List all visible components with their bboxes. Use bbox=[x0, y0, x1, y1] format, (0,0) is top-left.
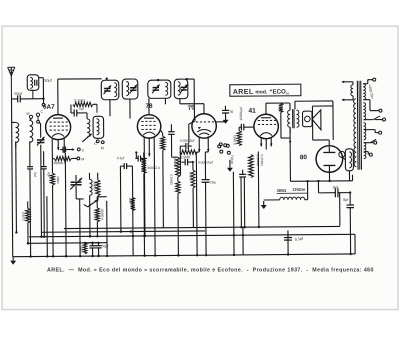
capacitor 10uf bbox=[201, 175, 216, 255]
svg-text:380Ω: 380Ω bbox=[277, 188, 287, 193]
antenna bbox=[8, 67, 15, 99]
svg-text:135Ωm: 135Ωm bbox=[292, 187, 306, 192]
wire can2 stub bbox=[129, 99, 131, 118]
oscillator arrow bbox=[82, 134, 92, 142]
junction bbox=[349, 253, 351, 255]
junction bbox=[106, 255, 108, 257]
tube 41 bbox=[254, 114, 279, 139]
label 75 bbox=[187, 104, 196, 112]
wire OT return bbox=[289, 127, 292, 181]
svg-text:50μf: 50μf bbox=[102, 244, 109, 248]
wire 41 plate bbox=[266, 103, 290, 114]
resistor 78 cathode bbox=[160, 130, 165, 228]
wire mid vertical b bbox=[242, 227, 244, 255]
wire AVC drop bbox=[180, 146, 182, 175]
ground 75 bypass bbox=[223, 116, 229, 124]
potentiometer arrow bbox=[84, 200, 98, 207]
switch contact M2 bbox=[71, 157, 84, 162]
svg-text:0.1MΩ: 0.1MΩ bbox=[173, 158, 177, 168]
svg-text:30: 30 bbox=[229, 110, 233, 114]
svg-text:0.5MΩ: 0.5MΩ bbox=[233, 135, 237, 145]
svg-text:10000μμf: 10000μμf bbox=[239, 107, 243, 121]
junction bbox=[120, 230, 122, 232]
wire 80 plate top bbox=[312, 106, 333, 146]
svg-text:0.25MΩ: 0.25MΩ bbox=[260, 154, 264, 166]
choke 380 bbox=[264, 181, 308, 200]
junction bbox=[287, 253, 289, 255]
svg-text:“ECO„: “ECO„ bbox=[269, 88, 289, 95]
tube 6A7 pins bbox=[52, 139, 64, 154]
capacitor 1uf bbox=[60, 147, 65, 153]
wire 78 grid cap bbox=[148, 98, 150, 114]
svg-text:10μ: 10μ bbox=[210, 180, 216, 184]
junction bbox=[91, 255, 93, 257]
capacitor 78 bypass bbox=[168, 124, 175, 157]
junction bbox=[177, 254, 179, 256]
svg-text:0.1μf: 0.1μf bbox=[117, 156, 125, 160]
resistor osc bbox=[92, 173, 100, 201]
svg-text:6μf: 6μf bbox=[47, 172, 51, 177]
wire 80 filament down bbox=[328, 170, 330, 181]
resistor 4000 bbox=[141, 152, 161, 255]
wire elec top bbox=[85, 242, 98, 244]
terminal C2 bbox=[94, 140, 99, 146]
svg-text:8μf: 8μf bbox=[343, 198, 348, 202]
svg-text:50pf: 50pf bbox=[14, 92, 22, 96]
capacitor 0.1uf b bbox=[135, 151, 144, 161]
wire 78 plate drop bbox=[144, 153, 155, 255]
tube 78 pins bbox=[144, 137, 154, 157]
mains plug arrows bbox=[341, 80, 353, 101]
junction bbox=[243, 226, 245, 228]
wire v9 bbox=[196, 152, 209, 255]
svg-text:80: 80 bbox=[300, 154, 308, 161]
svg-text:0.00025μf: 0.00025μf bbox=[180, 139, 195, 143]
junction bbox=[42, 98, 44, 100]
junction bbox=[79, 255, 81, 257]
junction bbox=[154, 254, 156, 256]
speaker bbox=[302, 110, 320, 130]
junction bbox=[233, 254, 235, 256]
wire v5 bbox=[76, 199, 84, 256]
wave-trap can bbox=[27, 75, 39, 99]
resistor 0.5k bbox=[21, 201, 30, 244]
svg-text:C: C bbox=[40, 110, 43, 114]
junction bbox=[89, 235, 91, 237]
wire v11 bbox=[287, 230, 289, 254]
junction bbox=[97, 255, 99, 257]
wire speaker top bbox=[295, 101, 333, 140]
primary tap coil bbox=[351, 85, 353, 96]
label choke bbox=[277, 187, 308, 194]
svg-text:0.5kΩ: 0.5kΩ bbox=[21, 211, 25, 220]
resistor 30000A bbox=[52, 153, 73, 165]
svg-text:10000: 10000 bbox=[93, 181, 97, 190]
terminal pickup 4 bbox=[227, 151, 230, 154]
secondary tap 2 bbox=[363, 100, 382, 113]
terminal M2 bbox=[101, 141, 104, 150]
title box bbox=[230, 84, 301, 96]
label 6A7 bbox=[43, 104, 55, 111]
svg-text:30000 A: 30000 A bbox=[53, 161, 66, 165]
tube 75 bbox=[192, 114, 217, 139]
svg-text:M: M bbox=[81, 157, 84, 161]
tube 75 pins bbox=[198, 136, 210, 152]
capacitor 0.00025 b bbox=[181, 159, 212, 166]
label 41 bbox=[248, 108, 256, 115]
wire can1 stub bbox=[106, 78, 111, 117]
output transformer bbox=[288, 103, 300, 133]
capacitor 0.1uf out bbox=[284, 235, 305, 242]
junction bbox=[84, 242, 86, 244]
junction bbox=[240, 226, 242, 228]
coil osc tap bbox=[89, 173, 92, 201]
svg-text:AREL: AREL bbox=[233, 89, 254, 96]
capacitor 8uf 1 bbox=[318, 181, 351, 198]
junction bbox=[143, 235, 145, 237]
wire v3 bbox=[47, 159, 54, 257]
IF can 1 bbox=[148, 79, 171, 99]
wire v10 bbox=[204, 152, 206, 175]
bus rail C bbox=[29, 242, 107, 245]
wire mid vertical a bbox=[232, 172, 235, 255]
wire B+ line bbox=[290, 171, 352, 183]
svg-text:400Ω: 400Ω bbox=[56, 176, 60, 184]
coil antenna primary bbox=[12, 122, 19, 142]
wire v1 bbox=[16, 141, 31, 256]
resistor 160 bbox=[80, 243, 87, 254]
ground main bbox=[10, 257, 16, 265]
secondary tap 6 bbox=[364, 152, 373, 157]
svg-text:mod.: mod. bbox=[255, 89, 268, 95]
svg-text:6A7: 6A7 bbox=[43, 104, 55, 111]
caption text bbox=[47, 268, 374, 274]
junction bbox=[143, 254, 145, 256]
junction bbox=[29, 255, 31, 257]
secondary tap 3 bbox=[363, 116, 385, 121]
secondary tap 5 bbox=[364, 139, 377, 144]
capacitor 50&#956;f bbox=[71, 104, 97, 116]
svg-text:0.25MΩ: 0.25MΩ bbox=[169, 174, 173, 185]
resistor 400&#937; bbox=[50, 173, 60, 185]
wire v8b bbox=[257, 152, 260, 227]
wire v2 bbox=[40, 153, 43, 236]
capacitor 50pf bbox=[11, 92, 43, 103]
ground tono bbox=[227, 160, 233, 172]
resistor 0.25M mid bbox=[169, 174, 180, 255]
coil oscillator A bbox=[87, 113, 90, 137]
switch contact C2 bbox=[65, 148, 84, 153]
terminal pickup 3 bbox=[220, 150, 223, 153]
label 50&#956;f bbox=[44, 79, 52, 83]
resistor 50000 bbox=[180, 150, 198, 160]
resistor 0.1M&#937; bbox=[73, 99, 93, 107]
junction bbox=[15, 231, 17, 233]
power transformer secondary bbox=[363, 84, 366, 159]
resistor 41 screen bbox=[279, 103, 290, 138]
resistor 41 grid leak bbox=[233, 127, 242, 146]
wire v7 bbox=[97, 197, 107, 256]
resistor 0.1M mid bbox=[172, 157, 180, 177]
label 78 bbox=[145, 103, 153, 110]
resistor 20000 bbox=[95, 197, 105, 237]
svg-text:0.1MΩ: 0.1MΩ bbox=[74, 99, 85, 103]
trimmer padder bbox=[70, 175, 82, 199]
wire antenna down-lead bbox=[11, 99, 12, 257]
junction bbox=[52, 255, 54, 257]
tube 6A7 bbox=[46, 115, 71, 140]
bus rail A2 bbox=[42, 231, 205, 232]
wire B+ to rail bbox=[339, 193, 341, 226]
terminal tono 1 bbox=[218, 145, 221, 148]
wire IF1 bottom bbox=[164, 98, 166, 104]
tube 80 bbox=[316, 146, 343, 173]
wire v4 bbox=[64, 153, 67, 256]
power transformer core bbox=[357, 81, 361, 170]
svg-text:0.5MΩ: 0.5MΩ bbox=[181, 155, 191, 159]
wire 75 plate bbox=[180, 98, 204, 113]
wire coil bottoms bbox=[16, 141, 30, 148]
svg-text:50000: 50000 bbox=[189, 172, 193, 181]
resistor 1k bbox=[128, 198, 135, 211]
junction bbox=[27, 242, 29, 244]
junction bbox=[40, 236, 42, 238]
junction bbox=[205, 254, 207, 256]
tube 78 bbox=[137, 115, 161, 139]
coil antenna secondary bbox=[30, 118, 33, 142]
capacitor 6uf b bbox=[41, 151, 52, 238]
svg-text:AREL. — Mod. « Eco del mondo: AREL. — Mod. « Eco del mondo » scorramab… bbox=[47, 268, 374, 274]
capacitor 50uF b bbox=[96, 243, 109, 257]
secondary tap 4 bbox=[364, 130, 382, 135]
junction bbox=[130, 230, 132, 232]
wire volume pair bbox=[241, 177, 245, 227]
bus rail ground bbox=[13, 254, 355, 257]
terminal C bbox=[36, 110, 43, 123]
junction bbox=[96, 235, 98, 237]
tube 41 pins bbox=[260, 138, 273, 150]
junction bbox=[242, 234, 244, 236]
capacitor 0.1uf a bbox=[117, 156, 133, 256]
bus rail A bbox=[64, 226, 340, 228]
label TONO bbox=[230, 155, 234, 165]
secondary tap 1 bbox=[363, 78, 376, 84]
capacitor tone 0.1 bbox=[239, 170, 246, 177]
svg-text:M: M bbox=[26, 112, 29, 116]
oscillator can bbox=[93, 116, 104, 138]
wire v6 bbox=[89, 201, 91, 236]
label 400-20 bbox=[367, 84, 374, 99]
terminal M bbox=[26, 112, 32, 119]
junction bbox=[132, 235, 134, 237]
ground choke bbox=[261, 201, 267, 209]
svg-text:41: 41 bbox=[248, 108, 256, 115]
terminal bbox=[42, 99, 45, 106]
capacitor 6uf a bbox=[27, 167, 37, 177]
wire 75 grid bbox=[189, 121, 195, 143]
wire trap to node bbox=[39, 78, 44, 99]
trimmer antenna bbox=[37, 123, 45, 153]
svg-text:5μf: 5μf bbox=[79, 107, 84, 111]
IF can 2 bbox=[174, 78, 188, 99]
svg-text:50μf: 50μf bbox=[44, 79, 52, 83]
capacitor 75 plate bypass bbox=[216, 106, 234, 122]
junction bbox=[46, 255, 48, 257]
junction bbox=[144, 235, 146, 237]
junction bbox=[91, 242, 93, 244]
junction bbox=[97, 242, 99, 244]
svg-text:M: M bbox=[101, 146, 104, 150]
terminal pickup 2 bbox=[226, 144, 229, 147]
wire 6A7 grid cap bbox=[58, 79, 102, 115]
svg-text:C: C bbox=[94, 142, 97, 146]
svg-text:20000 A: 20000 A bbox=[100, 209, 104, 221]
capacitor 0.00025 grid bbox=[180, 139, 195, 150]
svg-text:1kΩ: 1kΩ bbox=[128, 198, 132, 204]
label 80 bbox=[300, 154, 308, 161]
junction bbox=[196, 254, 198, 256]
bus rail B bbox=[29, 234, 355, 256]
svg-text:160Ω: 160Ω bbox=[80, 245, 84, 253]
RF can 1 bbox=[101, 80, 119, 100]
resistor 0.25M bbox=[248, 154, 264, 177]
terminal tono 2 bbox=[224, 144, 227, 147]
capacitor 8uf 2 bbox=[343, 193, 354, 254]
junction bbox=[65, 255, 67, 257]
capacitor 41 grid bbox=[239, 107, 254, 130]
choke bobbin bbox=[339, 149, 354, 171]
power transformer primary bbox=[354, 99, 357, 167]
capacitor 50uF a bbox=[90, 243, 96, 257]
svg-text:6μf: 6μf bbox=[33, 172, 37, 177]
wire IF2 right bbox=[188, 79, 196, 121]
svg-text:8μf: 8μf bbox=[333, 185, 338, 189]
junction bbox=[233, 234, 235, 236]
terminal pickup 1 bbox=[219, 143, 222, 146]
resistor 50000 v bbox=[189, 162, 196, 228]
RF can 2 bbox=[122, 79, 138, 99]
junction bbox=[258, 226, 260, 228]
